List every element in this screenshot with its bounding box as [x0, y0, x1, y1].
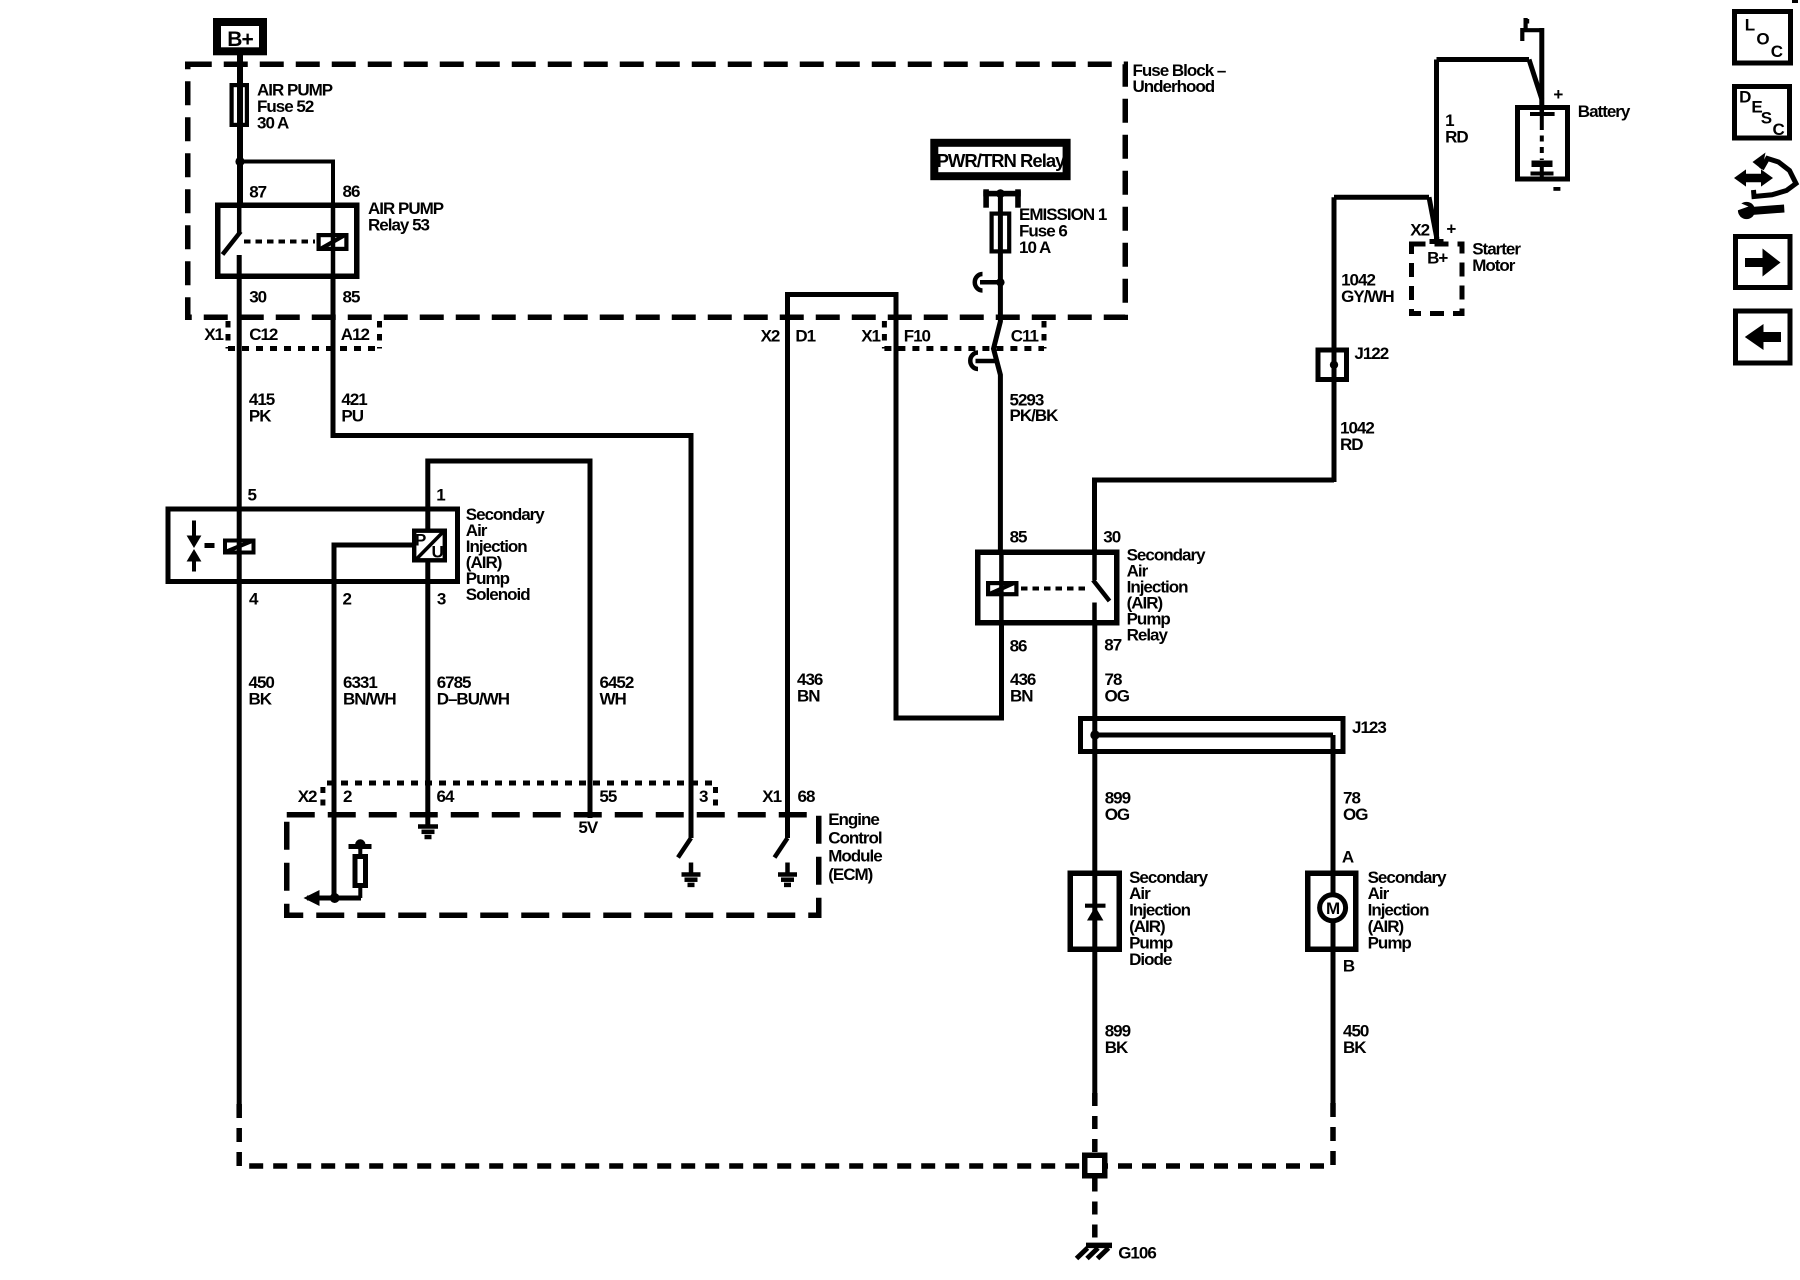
wire 1 RD branch battery to starter B+ [1437, 57, 1530, 62]
solenoid P/U driver box [414, 531, 445, 561]
svg-text:X1: X1 [204, 325, 223, 344]
svg-text:30: 30 [1103, 527, 1120, 546]
svg-text:S: S [1761, 109, 1772, 128]
fuse F52 AIR PUMP 30A [232, 85, 247, 125]
svg-text:X1: X1 [762, 787, 781, 806]
svg-text:M: M [1326, 899, 1340, 918]
svg-text:D1: D1 [795, 327, 815, 346]
svg-text:OG: OG [1105, 805, 1130, 824]
relay K53 pin 87 stub [237, 205, 242, 234]
splice pack J123 box [1081, 719, 1344, 752]
icon box forward arrow [1736, 237, 1791, 288]
ground symbol G106 [1086, 1243, 1112, 1249]
ECM pin 64 internal ground [418, 824, 438, 829]
dashed ground run diode leg to G106 [1092, 1093, 1098, 1153]
wire 415 PK relay 30 down through solenoid pins 5-4 (450 BK) to ground run [237, 255, 242, 1104]
page corner tick [1792, 0, 1798, 3]
svg-text:30: 30 [249, 287, 266, 306]
starter motor terminal bar [1430, 239, 1444, 244]
ECM pin 2 internal node and junction [330, 893, 340, 903]
PWR/TRN Relay feed box [934, 143, 1066, 176]
svg-text:P: P [415, 531, 426, 550]
svg-text:Control: Control [828, 828, 882, 847]
svg-text:C: C [1773, 120, 1785, 139]
svg-text:G106: G106 [1118, 1243, 1156, 1262]
svg-text:Module: Module [828, 847, 882, 866]
svg-text:GY/WH: GY/WH [1341, 287, 1394, 306]
svg-text:J122: J122 [1354, 344, 1388, 363]
svg-text:D: D [1739, 87, 1751, 106]
svg-text:85: 85 [343, 287, 360, 306]
wire 421 PU relay 85 to ECM pin 3 [333, 279, 691, 838]
dashed ground run 450 BK solenoid leg to G106 [239, 1104, 1082, 1166]
relay K2 pin 87 stub [1092, 603, 1097, 626]
icon swap arrows with wrench [1734, 169, 1773, 186]
svg-text:L: L [1745, 16, 1755, 35]
relay K2 switch blade [1093, 580, 1110, 601]
svg-text:BN: BN [1010, 686, 1033, 705]
svg-text:OG: OG [1343, 805, 1368, 824]
svg-text:2: 2 [343, 787, 352, 806]
svg-text:1: 1 [436, 486, 445, 505]
svg-text:Battery: Battery [1578, 102, 1631, 121]
svg-text:B+: B+ [1427, 249, 1448, 268]
svg-text:OG: OG [1105, 686, 1130, 705]
wire 436 BN ECM pin 68 up over and down to relay pin 86 [788, 295, 1002, 839]
svg-text:X1: X1 [861, 327, 880, 346]
svg-text:U: U [432, 543, 444, 562]
dashed ground drop G106 [1092, 1179, 1098, 1241]
svg-text:(ECM): (ECM) [828, 865, 872, 884]
svg-text:10 A: 10 A [1019, 238, 1051, 257]
svg-text:BN/WH: BN/WH [343, 690, 396, 709]
ground splice G106 box [1085, 1155, 1105, 1176]
relay K2 actuator dashed link [1021, 587, 1090, 591]
connector F10 C11 dotted outline [882, 321, 887, 349]
icon box LOC [1735, 12, 1791, 64]
svg-text:C: C [1771, 42, 1783, 61]
icon box back arrow [1736, 311, 1791, 363]
svg-text:Underhood: Underhood [1133, 77, 1215, 96]
svg-text:X2: X2 [761, 327, 780, 346]
svg-text:BK: BK [1343, 1038, 1367, 1057]
dashed ground run pump leg to G106 [1108, 1103, 1334, 1166]
svg-text:BK: BK [249, 690, 273, 709]
svg-text:C12: C12 [249, 325, 278, 344]
svg-text:Relay 53: Relay 53 [368, 216, 430, 235]
starter motor dashed box [1412, 244, 1463, 314]
svg-text:A12: A12 [341, 325, 370, 344]
battery G1 box [1518, 108, 1568, 180]
ECM connector dotted row [327, 781, 716, 786]
svg-text:BN: BN [797, 686, 820, 705]
svg-text:Motor: Motor [1472, 256, 1516, 275]
svg-text:X2: X2 [298, 787, 317, 806]
solenoid coil symbol [225, 541, 254, 553]
power feed B+ terminal box [217, 22, 263, 51]
battery positive lead with retainer hook [1539, 28, 1544, 107]
svg-text:B+: B+ [227, 28, 253, 51]
ECM pin 3 internal switch to ground [678, 838, 691, 858]
wire 78 OG J123 to pump terminal A and down (450 BK) [1331, 735, 1336, 1103]
svg-text:PK: PK [249, 407, 272, 426]
svg-text:86: 86 [1010, 636, 1027, 655]
svg-text:5V: 5V [578, 818, 598, 837]
fuse F6 EMISSION 1 10A [992, 214, 1010, 252]
fuse block underhood dashed boundary box [188, 64, 1126, 317]
diode D1 AIR pump diode box [1070, 873, 1119, 949]
ECM internal supply bar [349, 844, 372, 849]
svg-text:D–BU/WH: D–BU/WH [437, 690, 510, 709]
svg-text:3: 3 [699, 787, 708, 806]
fuse holder terminal bracket [983, 189, 989, 207]
solenoid valve arrows symbol [192, 521, 196, 538]
svg-text:C11: C11 [1011, 327, 1039, 346]
svg-text:RD: RD [1340, 435, 1363, 454]
svg-text:J123: J123 [1352, 718, 1386, 737]
svg-text:86: 86 [343, 182, 360, 201]
relay K53 AIR PUMP Relay box [218, 205, 357, 276]
wire 78 OG relay 87 down through J123 to diode (899 OG) [1092, 626, 1097, 1094]
wire 6785 D-BU/WH solenoid pin 3 to ECM pin 64 [425, 563, 430, 827]
relay K2 coil internal wire pins 85-86 [999, 552, 1004, 623]
ECM dashed box [287, 815, 819, 916]
svg-text:PWR/TRN Relay: PWR/TRN Relay [937, 150, 1067, 171]
connector X1 C12 A12 dotted outline [226, 321, 231, 349]
relay K53 pin 86 to 85 internal wire [331, 205, 336, 279]
svg-text:55: 55 [599, 787, 616, 806]
relay K53 coil [319, 235, 347, 249]
svg-text:F10: F10 [904, 327, 931, 346]
svg-text:PU: PU [341, 407, 363, 426]
svg-text:BK: BK [1105, 1038, 1129, 1057]
wire 6452 WH solenoid pin 1 to ECM pin 55 [428, 461, 590, 818]
svg-text:WH: WH [600, 690, 627, 709]
wire B+ feed down through fuse 52 to relay 53 pin 87 [237, 55, 243, 205]
svg-text:Solenoid: Solenoid [466, 585, 530, 604]
svg-text:B: B [1343, 956, 1355, 975]
battery plates symbol [1540, 105, 1545, 112]
svg-text:X2: X2 [1410, 220, 1429, 239]
svg-text:PK/BK: PK/BK [1010, 406, 1060, 425]
svg-text:2: 2 [343, 589, 352, 608]
svg-text:68: 68 [798, 787, 815, 806]
svg-text:Pump: Pump [1368, 933, 1412, 952]
relay K53 switch blade [223, 232, 241, 255]
solenoid V1 AIR pump solenoid box [168, 509, 458, 582]
relay K2 Secondary AIR pump relay box [978, 552, 1117, 623]
svg-text:A: A [1342, 847, 1354, 866]
svg-text:Relay: Relay [1127, 626, 1169, 645]
label battery minus [1553, 187, 1560, 191]
svg-text:+: + [1446, 219, 1456, 238]
svg-text:RD: RD [1445, 127, 1468, 146]
ECM pin 68 internal switch to ground [775, 838, 788, 858]
pump motor circle [1320, 895, 1346, 921]
relay K2 pin 30 stub [1092, 552, 1097, 580]
svg-text:87: 87 [1104, 635, 1121, 654]
solenoid mechanical link dash [205, 543, 215, 548]
relay K2 coil [988, 583, 1016, 594]
svg-text:30 A: 30 A [257, 113, 289, 132]
wire 1042 GY/WH starter to J122 [1334, 195, 1429, 200]
solenoid internal wire pin 2 to PU driver [334, 545, 412, 898]
svg-text:+: + [1553, 85, 1563, 104]
wire 5293 PK/BK from PWR/TRN relay through fuse 6 and C11 to relay pin 85 [994, 196, 1001, 552]
svg-text:5: 5 [248, 486, 257, 505]
svg-text:Diode: Diode [1129, 950, 1172, 969]
svg-text:87: 87 [249, 182, 266, 201]
wire branch to relay 53 pin 86 [240, 162, 333, 206]
svg-text:3: 3 [437, 589, 446, 608]
svg-text:64: 64 [437, 787, 455, 806]
relay K53 actuator dashed link [244, 240, 315, 244]
motor M1 Secondary AIR pump box [1308, 873, 1356, 949]
ECM internal pull-up resistor [355, 857, 366, 886]
icon box DESC [1735, 87, 1790, 139]
ECM internal signal arrow [304, 890, 320, 906]
diode symbol [1085, 904, 1106, 908]
splice J122 box [1318, 350, 1347, 380]
junction node on B+ feed [235, 157, 244, 166]
svg-text:O: O [1756, 29, 1769, 48]
wire 1042 RD J122 down and over to relay pin 30 [1095, 480, 1335, 552]
terminal clip upper [980, 280, 1000, 285]
svg-text:Engine: Engine [828, 810, 879, 829]
terminal clip lower at connector C11 [976, 359, 997, 364]
svg-text:85: 85 [1010, 527, 1027, 546]
